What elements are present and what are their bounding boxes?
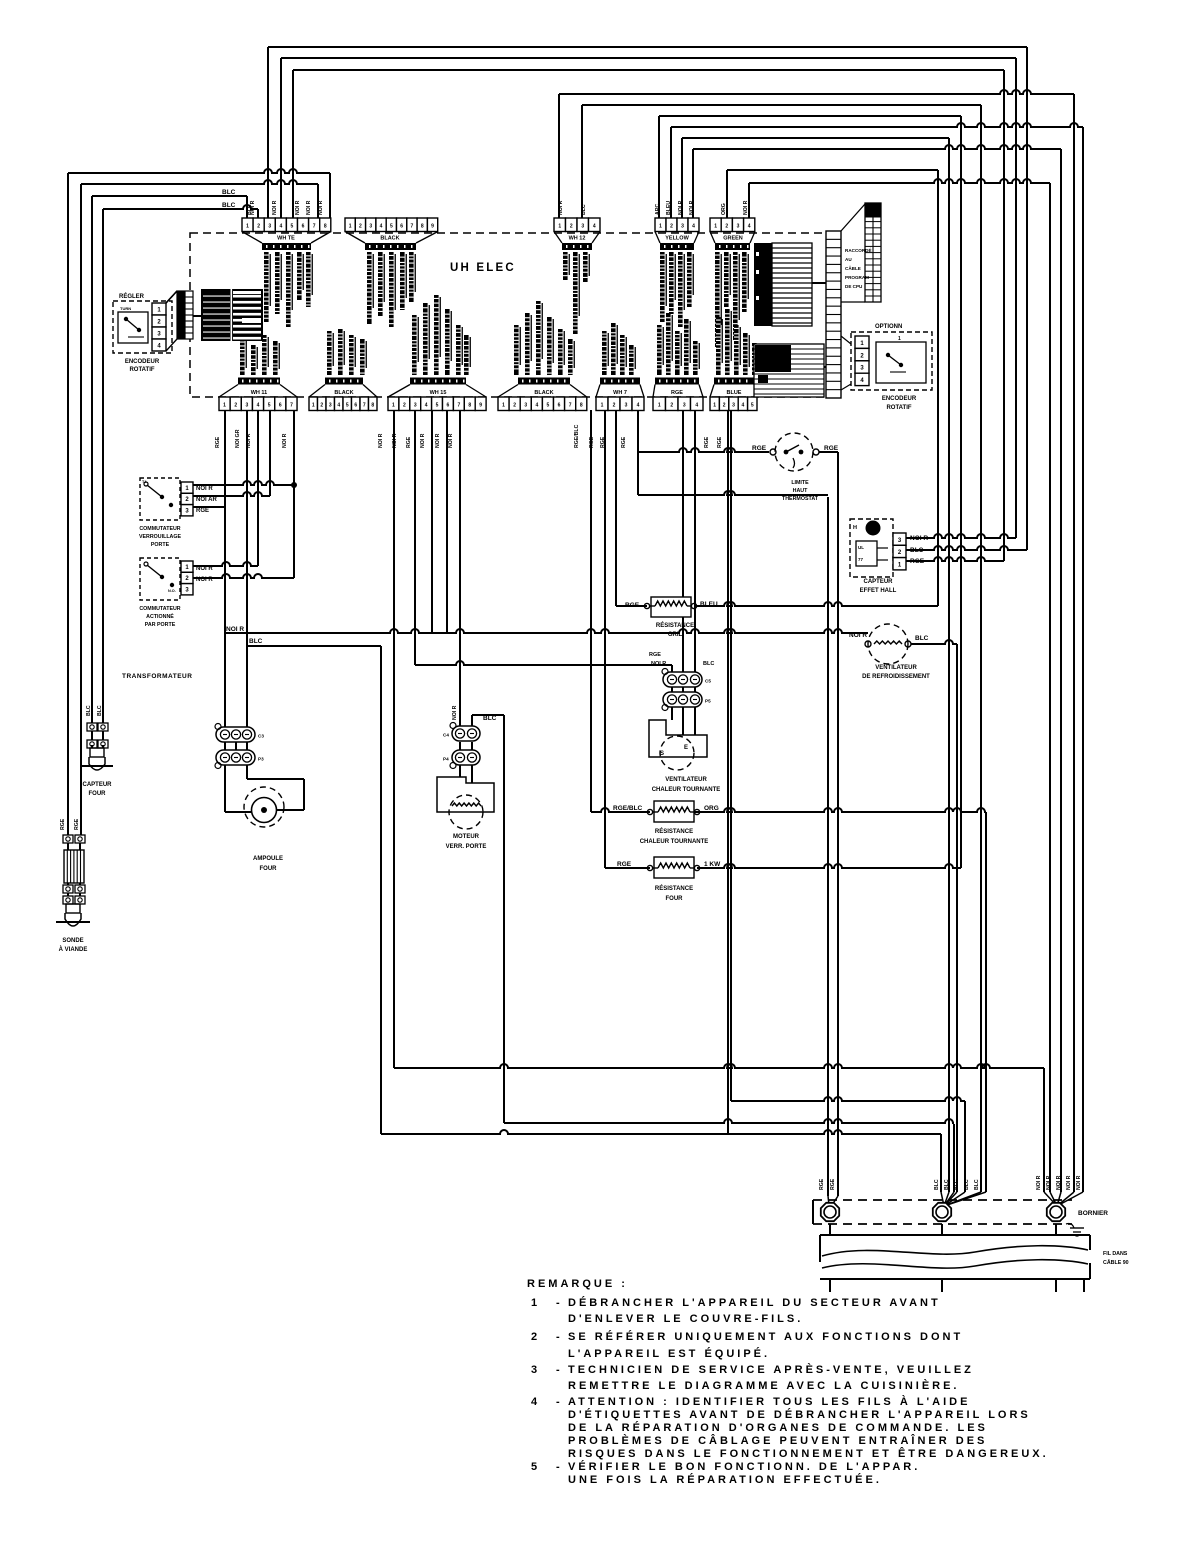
svg-text:RGE/BLC: RGE/BLC <box>574 424 580 448</box>
svg-text:3: 3 <box>329 403 332 409</box>
svg-text:CÂBLE 90: CÂBLE 90 <box>1103 1259 1129 1266</box>
svg-text:BLC: BLC <box>964 1179 970 1190</box>
svg-text:2: 2 <box>513 403 516 409</box>
svg-text:HAUT: HAUT <box>793 488 808 494</box>
svg-text:C5: C5 <box>705 679 711 684</box>
svg-text:-: - <box>556 1331 560 1343</box>
svg-text:BLC: BLC <box>934 1179 940 1190</box>
svg-text:7: 7 <box>569 403 572 409</box>
svg-text:BORNIER: BORNIER <box>1078 1210 1108 1217</box>
svg-text:RGE: RGE <box>819 1178 825 1190</box>
svg-text:1: 1 <box>223 403 226 409</box>
svg-text:6: 6 <box>558 403 561 409</box>
svg-text:WH 15: WH 15 <box>430 390 447 396</box>
svg-text:1 KW: 1 KW <box>704 861 721 868</box>
svg-text:D'ENLEVER LE COUVRE-FILS.: D'ENLEVER LE COUVRE-FILS. <box>568 1313 803 1325</box>
svg-text:3: 3 <box>524 403 527 409</box>
svg-text:NOI R: NOI R <box>1066 1175 1072 1190</box>
svg-text:D'ÉTIQUETTES AVANT DE DÉBRANCH: D'ÉTIQUETTES AVANT DE DÉBRANCHER L'APPAR… <box>568 1408 1031 1421</box>
svg-text:1: 1 <box>531 1297 538 1309</box>
svg-text:H: H <box>853 525 857 531</box>
svg-text:2: 2 <box>320 403 323 409</box>
svg-text:TRANSFORMATEUR: TRANSFORMATEUR <box>122 673 192 680</box>
svg-text:4: 4 <box>279 224 282 230</box>
svg-text:2: 2 <box>670 224 673 230</box>
svg-text:2: 2 <box>257 224 260 230</box>
svg-text:BLC: BLC <box>703 661 714 667</box>
svg-text:RGE: RGE <box>671 390 683 396</box>
svg-text:BLACK: BLACK <box>380 236 399 242</box>
svg-text:1: 1 <box>659 224 662 230</box>
svg-text:1: 1 <box>349 224 352 230</box>
svg-text:FOUR: FOUR <box>89 791 107 797</box>
svg-text:RGE: RGE <box>649 652 661 658</box>
svg-text:1: 1 <box>246 224 249 230</box>
svg-text:BLC: BLC <box>954 1179 960 1190</box>
svg-text:3: 3 <box>625 403 628 409</box>
svg-text:WH 11: WH 11 <box>251 390 268 396</box>
svg-text:1: 1 <box>658 403 661 409</box>
svg-text:RÉSISTANCE: RÉSISTANCE <box>655 827 693 835</box>
svg-text:3: 3 <box>245 403 248 409</box>
svg-text:PAR PORTE: PAR PORTE <box>145 622 176 628</box>
svg-text:1: 1 <box>601 403 604 409</box>
svg-text:UL: UL <box>858 545 864 550</box>
svg-text:COMMUTATEUR: COMMUTATEUR <box>139 606 180 612</box>
svg-text:2: 2 <box>613 403 616 409</box>
svg-text:RISQUES DANS LE FONCTIONNEMENT: RISQUES DANS LE FONCTIONNEMENT ET ÊTRE D… <box>568 1447 1049 1460</box>
svg-text:ENCODEUR: ENCODEUR <box>125 359 160 365</box>
svg-text:4: 4 <box>593 224 596 230</box>
svg-text:TURN: TURN <box>120 306 131 311</box>
svg-text:WH TE: WH TE <box>277 236 295 242</box>
svg-text:6: 6 <box>302 224 305 230</box>
svg-text:E: E <box>684 745 688 751</box>
svg-text:FOUR: FOUR <box>260 866 278 872</box>
svg-text:5: 5 <box>390 224 393 230</box>
svg-text:EFFET HALL: EFFET HALL <box>860 588 897 594</box>
svg-text:2: 2 <box>670 403 673 409</box>
svg-text:BLC: BLC <box>222 189 236 196</box>
svg-text:NOI R: NOI R <box>226 626 244 633</box>
svg-text:3: 3 <box>369 224 372 230</box>
svg-text:7: 7 <box>363 403 366 409</box>
svg-text:N.O.: N.O. <box>168 589 176 593</box>
svg-text:RÉSISTANCE: RÉSISTANCE <box>656 621 694 629</box>
svg-text:2: 2 <box>403 403 406 409</box>
svg-text:1: 1 <box>558 224 561 230</box>
svg-text:RÉSISTANCE: RÉSISTANCE <box>655 884 693 892</box>
svg-text:4: 4 <box>637 403 640 409</box>
svg-text:NOI R: NOI R <box>435 433 441 448</box>
svg-text:-: - <box>556 1297 560 1309</box>
svg-text:RGE: RGE <box>704 436 710 448</box>
svg-text:3: 3 <box>414 403 417 409</box>
svg-text:5: 5 <box>346 403 349 409</box>
svg-text:ATTENTION : IDENTIFIER TOUS LE: ATTENTION : IDENTIFIER TOUS LES FILS À L… <box>568 1395 970 1408</box>
svg-text:5: 5 <box>547 403 550 409</box>
svg-text:8: 8 <box>580 403 583 409</box>
svg-text:4: 4 <box>337 403 340 409</box>
svg-text:8: 8 <box>468 403 471 409</box>
svg-text:BLACK: BLACK <box>534 390 553 396</box>
svg-text:ROTATIF: ROTATIF <box>129 367 154 373</box>
svg-text:FOUR: FOUR <box>666 896 684 902</box>
svg-text:GRIL: GRIL <box>668 632 683 638</box>
svg-text:1: 1 <box>713 403 716 409</box>
svg-text:4: 4 <box>531 1396 538 1408</box>
svg-text:1: 1 <box>392 403 395 409</box>
svg-text:5: 5 <box>291 224 294 230</box>
svg-text:RGE: RGE <box>824 445 839 452</box>
svg-text:-: - <box>556 1396 560 1408</box>
svg-text:CHALEUR TOURNANTE: CHALEUR TOURNANTE <box>652 787 721 793</box>
svg-text:SE RÉFÉRER UNIQUEMENT AUX FONC: SE RÉFÉRER UNIQUEMENT AUX FONCTIONS DONT <box>568 1330 963 1343</box>
svg-text:6: 6 <box>354 403 357 409</box>
svg-text:1: 1 <box>714 224 717 230</box>
svg-text:RACCORDÉ: RACCORDÉ <box>845 246 872 253</box>
svg-text:NOI R: NOI R <box>378 433 384 448</box>
svg-text:3: 3 <box>681 224 684 230</box>
svg-text:FIL DANS: FIL DANS <box>1103 1251 1128 1257</box>
svg-text:ENCODEUR: ENCODEUR <box>882 396 917 402</box>
svg-text:6: 6 <box>279 403 282 409</box>
svg-text:THERMOSTAT: THERMOSTAT <box>782 496 819 502</box>
svg-text:BLC: BLC <box>483 715 497 722</box>
svg-text:4: 4 <box>742 403 745 409</box>
svg-text:VENTILATEUR: VENTILATEUR <box>665 777 707 783</box>
svg-text:RGE: RGE <box>196 508 209 514</box>
svg-text:-: - <box>556 1461 560 1473</box>
svg-text:5: 5 <box>531 1461 538 1473</box>
svg-text:1: 1 <box>312 403 315 409</box>
svg-text:CAPTEUR: CAPTEUR <box>863 579 893 585</box>
svg-text:P5: P5 <box>705 699 711 704</box>
svg-text:REMARQUE :: REMARQUE : <box>527 1278 628 1290</box>
svg-text:2: 2 <box>725 224 728 230</box>
svg-text:MOTEUR: MOTEUR <box>453 834 480 840</box>
svg-text:NOI AR: NOI AR <box>196 497 217 503</box>
svg-text:4: 4 <box>748 224 751 230</box>
svg-text:RGE: RGE <box>60 818 66 830</box>
svg-text:AU: AU <box>845 257 852 262</box>
svg-text:9: 9 <box>431 224 434 230</box>
svg-text:8: 8 <box>421 224 424 230</box>
svg-text:NOI R: NOI R <box>295 200 301 215</box>
svg-text:P4: P4 <box>443 757 449 762</box>
svg-text:YELLOW: YELLOW <box>665 236 689 242</box>
svg-text:2: 2 <box>531 1331 538 1343</box>
svg-text:NOI R: NOI R <box>849 632 867 639</box>
svg-text:NOI R: NOI R <box>1076 1175 1082 1190</box>
svg-text:ORG: ORG <box>704 805 719 812</box>
svg-text:NOI R: NOI R <box>1036 1175 1042 1190</box>
svg-text:5: 5 <box>268 403 271 409</box>
svg-text:PROGRAM: PROGRAM <box>845 275 869 280</box>
svg-text:RGE: RGE <box>74 818 80 830</box>
svg-text:VÉRIFIER LE BON FONCTIONN. DE: VÉRIFIER LE BON FONCTIONN. DE L'APPAR. <box>568 1460 920 1473</box>
svg-text:DE REFROIDISSEMENT: DE REFROIDISSEMENT <box>862 674 930 680</box>
svg-text:ROTATIF: ROTATIF <box>886 405 911 411</box>
svg-text:C4: C4 <box>443 733 449 738</box>
svg-text:4: 4 <box>257 403 260 409</box>
svg-text:3: 3 <box>581 224 584 230</box>
svg-text:BLC: BLC <box>944 1179 950 1190</box>
svg-text:NOI R: NOI R <box>452 705 458 720</box>
svg-text:4: 4 <box>695 403 698 409</box>
svg-text:RGE: RGE <box>406 436 412 448</box>
svg-text:3: 3 <box>683 403 686 409</box>
svg-text:3: 3 <box>268 224 271 230</box>
svg-text:CAPTEUR: CAPTEUR <box>82 782 112 788</box>
svg-text:NOI R: NOI R <box>282 433 288 448</box>
svg-text:3: 3 <box>732 403 735 409</box>
svg-text:5: 5 <box>436 403 439 409</box>
svg-text:7: 7 <box>457 403 460 409</box>
svg-text:L'APPAREIL EST ÉQUIPÉ.: L'APPAREIL EST ÉQUIPÉ. <box>568 1347 770 1360</box>
svg-text:1: 1 <box>502 403 505 409</box>
svg-text:À VIANDE: À VIANDE <box>59 946 88 953</box>
svg-text:NOI R: NOI R <box>1046 1175 1052 1190</box>
svg-text:NOI R: NOI R <box>196 486 213 492</box>
svg-text:4: 4 <box>425 403 428 409</box>
svg-text:TECHNICIEN DE SERVICE APRÈS-VE: TECHNICIEN DE SERVICE APRÈS-VENTE, VEUIL… <box>568 1363 974 1376</box>
svg-text:BLC: BLC <box>86 705 92 716</box>
svg-text:NOI R: NOI R <box>448 433 454 448</box>
svg-text:BLC: BLC <box>249 638 263 645</box>
svg-text:NOI R: NOI R <box>420 433 426 448</box>
svg-text:SONDE: SONDE <box>62 938 83 944</box>
svg-text:REMETTRE LE DIAGRAMME AVEC LA: REMETTRE LE DIAGRAMME AVEC LA CUISINIÈRE… <box>568 1379 960 1392</box>
svg-text:BLC: BLC <box>974 1179 980 1190</box>
svg-text:8: 8 <box>371 403 374 409</box>
svg-text:NOI GR: NOI GR <box>235 429 241 448</box>
svg-text:NOI R: NOI R <box>272 200 278 215</box>
svg-text:3: 3 <box>531 1364 538 1376</box>
svg-text:4: 4 <box>535 403 538 409</box>
svg-text:VERROUILLAGE: VERROUILLAGE <box>139 534 182 540</box>
svg-text:RÉGLER: RÉGLER <box>119 292 145 300</box>
svg-text:BLACK: BLACK <box>334 390 353 396</box>
svg-text:2: 2 <box>234 403 237 409</box>
svg-text:BLC: BLC <box>97 705 103 716</box>
svg-text:RGE: RGE <box>752 445 767 452</box>
svg-text:RGE: RGE <box>717 436 723 448</box>
svg-text:BLC: BLC <box>247 204 253 215</box>
svg-text:BLC: BLC <box>915 635 929 642</box>
svg-text:VERR. PORTE: VERR. PORTE <box>446 844 487 850</box>
svg-text:DE LA RÉPARATION D'ORGANES DE: DE LA RÉPARATION D'ORGANES DE COMMANDE. … <box>568 1421 988 1434</box>
svg-text:NOI R: NOI R <box>651 661 666 667</box>
svg-text:COMMUTATEUR: COMMUTATEUR <box>139 526 180 532</box>
svg-text:NOI R: NOI R <box>306 200 312 215</box>
svg-text:WH 7: WH 7 <box>613 390 627 396</box>
svg-text:BLUE: BLUE <box>727 390 742 396</box>
svg-text:CÂBLE: CÂBLE <box>845 265 861 271</box>
svg-text:NOI R: NOI R <box>1056 1175 1062 1190</box>
svg-text:AMPOULE: AMPOULE <box>253 856 283 862</box>
svg-text:ACTIONNÉ: ACTIONNÉ <box>146 612 174 620</box>
svg-text:RGE: RGE <box>617 861 632 868</box>
svg-text:S: S <box>660 751 664 757</box>
svg-text:7: 7 <box>290 403 293 409</box>
svg-text:1: 1 <box>898 336 901 342</box>
svg-text:LIMITE: LIMITE <box>791 480 809 486</box>
svg-text:OPTIONN: OPTIONN <box>875 324 902 330</box>
svg-text:3: 3 <box>737 224 740 230</box>
svg-text:4: 4 <box>692 224 695 230</box>
svg-text:77: 77 <box>858 557 864 562</box>
svg-text:4: 4 <box>380 224 383 230</box>
svg-text:6: 6 <box>447 403 450 409</box>
svg-text:9: 9 <box>479 403 482 409</box>
svg-text:DÉBRANCHER L'APPAREIL DU SECTE: DÉBRANCHER L'APPAREIL DU SECTEUR AVANT <box>568 1296 941 1309</box>
svg-text:NOI R: NOI R <box>318 200 324 215</box>
svg-text:RGE: RGE <box>215 436 221 448</box>
svg-text:WH 12: WH 12 <box>569 236 586 242</box>
svg-text:PROBLÈMES DE CÂBLAGE PEUVENT E: PROBLÈMES DE CÂBLAGE PEUVENT ENTRAÎNER D… <box>568 1434 987 1447</box>
svg-text:7: 7 <box>411 224 414 230</box>
svg-text:RGE: RGE <box>830 1178 836 1190</box>
svg-text:RGE: RGE <box>621 436 627 448</box>
svg-text:2: 2 <box>359 224 362 230</box>
svg-text:2: 2 <box>570 224 573 230</box>
svg-text:RGE/BLC: RGE/BLC <box>613 805 643 812</box>
svg-text:DE CPU: DE CPU <box>845 284 863 289</box>
svg-text:6: 6 <box>400 224 403 230</box>
svg-text:-: - <box>556 1364 560 1376</box>
svg-text:UNE FOIS LA RÉPARATION EFFECTU: UNE FOIS LA RÉPARATION EFFECTUÉE. <box>568 1473 882 1486</box>
svg-text:C3: C3 <box>258 734 264 739</box>
svg-text:UH ELEC: UH ELEC <box>450 262 516 274</box>
svg-text:8: 8 <box>324 224 327 230</box>
svg-text:2: 2 <box>723 403 726 409</box>
svg-text:PORTE: PORTE <box>151 542 170 548</box>
svg-text:GREEN: GREEN <box>723 236 743 242</box>
svg-text:BLC: BLC <box>222 202 236 209</box>
svg-text:7: 7 <box>313 224 316 230</box>
svg-text:P3: P3 <box>258 757 264 762</box>
svg-text:5: 5 <box>751 403 754 409</box>
svg-text:VENTILATEUR: VENTILATEUR <box>875 665 917 671</box>
svg-text:CHALEUR TOURNANTE: CHALEUR TOURNANTE <box>640 839 709 845</box>
